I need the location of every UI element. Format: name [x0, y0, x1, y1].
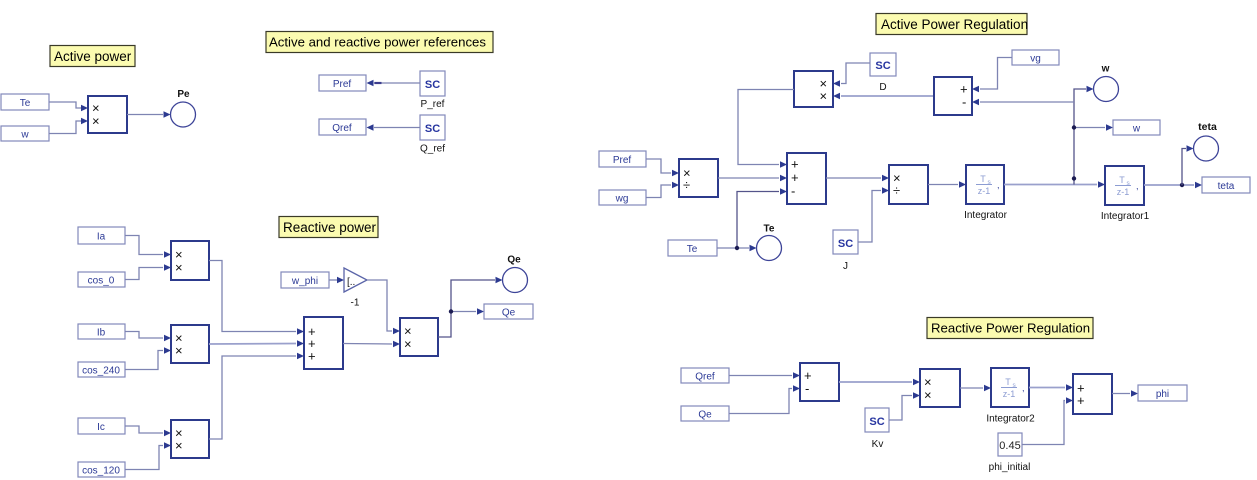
svg-text:w: w	[20, 130, 29, 141]
wire sum to product4	[343, 341, 400, 348]
svg-text:wg: wg	[615, 194, 629, 205]
wire w to product	[49, 118, 88, 134]
svg-text:-: -	[791, 184, 795, 199]
product block (Te*w)	[88, 96, 127, 133]
svg-text:cos_120: cos_120	[82, 466, 120, 477]
svg-text:J: J	[843, 261, 848, 272]
svg-text:Ib: Ib	[97, 328, 106, 339]
svg-text:SC: SC	[875, 60, 890, 72]
source block Te	[1, 94, 49, 110]
svg-text:z-1: z-1	[978, 186, 991, 196]
svg-text:×: ×	[175, 438, 183, 453]
source block w_phi	[281, 272, 329, 288]
SC block J	[833, 230, 858, 272]
wire SC J to divide2	[858, 187, 889, 242]
svg-text:T: T	[1005, 377, 1011, 387]
svg-text:Ic: Ic	[97, 422, 105, 433]
svg-text:-1: -1	[351, 298, 360, 309]
wire product2 to sum	[209, 340, 304, 347]
wire SC to Pref	[367, 80, 421, 87]
product block D (mirrored)	[794, 71, 833, 107]
svg-text:w: w	[1132, 124, 1141, 135]
svg-text:cos_0: cos_0	[88, 276, 115, 287]
source block cos_0	[78, 272, 125, 287]
junction dot teta	[1180, 183, 1184, 187]
svg-text:,: ,	[997, 180, 1000, 190]
svg-text:Te: Te	[764, 224, 775, 235]
wire Te to product	[49, 102, 88, 111]
svg-text:×: ×	[404, 337, 412, 352]
annotation label "Active Power Regulation"	[876, 14, 1028, 35]
wire sum to product Kv	[839, 379, 920, 386]
scope circle Te	[757, 224, 782, 261]
wire 0.45 to sum2	[1022, 397, 1073, 444]
wire Integrator1 to teta sink	[1144, 182, 1202, 189]
svg-text:P_ref: P_ref	[421, 99, 445, 110]
svg-text:Active Power Regulation: Active Power Regulation	[881, 17, 1028, 32]
svg-text:0.45: 0.45	[999, 440, 1020, 452]
annotation label "Reactive Power Regulation"	[927, 318, 1093, 339]
svg-text:Pref: Pref	[333, 79, 352, 90]
wire wg to divide	[646, 182, 679, 198]
svg-text:Qe: Qe	[502, 308, 516, 319]
svg-text:T: T	[980, 174, 986, 184]
svg-text:SC: SC	[838, 238, 853, 250]
source block Qe	[681, 406, 729, 421]
wire cos_120 to product3	[125, 442, 171, 469]
source block Ib	[78, 324, 125, 339]
annotation label "Reactive power"	[279, 217, 378, 238]
Integrator block	[964, 165, 1007, 221]
svg-text:Reactive Power Regulation: Reactive Power Regulation	[931, 321, 1090, 336]
sink block Qref	[319, 119, 366, 135]
svg-text:Pref: Pref	[613, 155, 632, 166]
source block Te	[668, 240, 717, 256]
svg-text:SC: SC	[425, 79, 440, 91]
source block Qref	[681, 368, 729, 383]
svg-text:teta: teta	[1218, 181, 1235, 192]
source block Ia	[78, 227, 125, 244]
junction dot	[449, 309, 453, 313]
svg-text:,: ,	[1136, 181, 1139, 191]
error sum block + - (mirrored)	[934, 77, 972, 115]
wire Ib to product2	[125, 332, 171, 342]
svg-text:Reactive power: Reactive power	[283, 220, 377, 235]
wire Integrator2 to sum2	[1029, 384, 1073, 391]
svg-text:Qe: Qe	[507, 255, 521, 266]
sink block Pref	[319, 75, 366, 91]
wire SC Kv to product	[889, 392, 920, 420]
sink block teta	[1202, 177, 1250, 193]
svg-text:,: ,	[1022, 383, 1025, 393]
SC block P_ref	[420, 71, 445, 110]
svg-text:phi_initial: phi_initial	[989, 462, 1031, 473]
sum block + -	[800, 363, 839, 401]
svg-text:Qref: Qref	[695, 372, 715, 383]
wire Qref to sum	[729, 372, 800, 379]
wire sum to divide2	[826, 175, 889, 182]
scope circle teta	[1194, 121, 1219, 161]
svg-text:+: +	[308, 349, 316, 364]
wire cos_0 to product1	[125, 264, 171, 279]
wire product to Integrator2	[960, 385, 991, 392]
svg-text:÷: ÷	[893, 183, 900, 198]
wire divide to sum	[718, 175, 787, 182]
junction dot main line	[1072, 176, 1076, 180]
wire Te to scope and sum	[717, 188, 787, 251]
svg-text:phi: phi	[1156, 389, 1169, 400]
svg-text:SC: SC	[869, 416, 884, 428]
annotation label "Active and reactive power references"	[266, 32, 493, 53]
product block Ia*cos_0	[171, 241, 209, 280]
svg-text:-: -	[805, 381, 809, 396]
junction dot Te	[735, 246, 739, 250]
svg-text:w_phi: w_phi	[291, 276, 318, 287]
svg-text:Active power: Active power	[54, 49, 132, 64]
svg-text:Active and reactive power refe: Active and reactive power references	[269, 35, 486, 50]
product block Ib*cos_240	[171, 325, 209, 363]
svg-text:w: w	[1101, 64, 1110, 75]
wire product3 to sum	[209, 353, 304, 439]
wire error sum to product D	[833, 93, 934, 100]
wire divide2 to Integrator	[928, 181, 966, 188]
scope circle w	[1094, 64, 1119, 102]
svg-text:z-1: z-1	[1117, 187, 1130, 197]
svg-text:+: +	[1077, 393, 1085, 408]
svg-text:z-1: z-1	[1003, 389, 1016, 399]
feedback vertical branch	[1072, 86, 1094, 185]
wire Qe to sum	[729, 385, 800, 413]
product block Kv	[920, 369, 960, 407]
svg-text:Integrator1: Integrator1	[1101, 211, 1150, 222]
svg-text:×: ×	[175, 343, 183, 358]
wire cos_240 to product2	[125, 347, 171, 369]
wire product to Pe scope	[127, 111, 171, 118]
wire product4 to Qe scope and Qe sink	[438, 277, 503, 337]
source block Ic	[78, 418, 125, 434]
wire branch to teta scope	[1182, 145, 1194, 185]
svg-text:teta: teta	[1198, 121, 1217, 133]
scope circle Qe	[503, 255, 528, 293]
SC block Q_ref	[420, 115, 445, 155]
svg-text:Integrator: Integrator	[964, 210, 1007, 221]
wire gain to product4	[367, 280, 400, 334]
source block cos_240	[78, 362, 125, 377]
source block wg	[599, 190, 646, 205]
divide block /J	[889, 165, 928, 204]
wire Ia to product1	[125, 236, 171, 258]
svg-text:Pe: Pe	[177, 89, 190, 100]
sink block w	[1113, 120, 1160, 135]
svg-text:Te: Te	[20, 98, 31, 109]
source block cos_120	[78, 462, 125, 477]
constant block 0.45	[989, 433, 1031, 473]
wire SC D to product D (mirrored input)	[833, 63, 870, 87]
svg-text:D: D	[879, 82, 886, 93]
svg-text:-: -	[962, 95, 966, 110]
wire Ic to product3	[125, 426, 171, 436]
junction dot w sink	[1072, 125, 1076, 129]
wire SC to Qref	[367, 124, 421, 131]
svg-text:[..: [..	[347, 277, 355, 288]
sink block Qe	[484, 304, 533, 319]
svg-text:cos_240: cos_240	[82, 366, 120, 377]
wire product1 to sum	[209, 261, 304, 335]
wire branch to error sum minus	[972, 99, 1074, 106]
product block Qe	[400, 318, 438, 356]
SC block D	[870, 53, 896, 93]
svg-text:×: ×	[924, 388, 932, 403]
annotation label "Active power"	[50, 46, 135, 67]
wire branch to w sink	[1072, 124, 1113, 131]
sum block (three-phase add)	[304, 317, 343, 369]
svg-text:vg: vg	[1030, 54, 1041, 65]
Integrator1 block	[1101, 166, 1150, 222]
svg-text:×: ×	[820, 89, 828, 104]
svg-text:Kv: Kv	[872, 439, 884, 450]
svg-text:Ia: Ia	[97, 232, 106, 243]
sum block + +	[1073, 374, 1112, 414]
wire Integrator to Integrator1	[1004, 181, 1105, 188]
gain triangle -1	[344, 268, 367, 309]
wire Pref to divide	[646, 159, 679, 176]
svg-text:Qe: Qe	[698, 410, 712, 421]
wire product D down to main sum	[738, 90, 794, 168]
SC block Kv	[865, 408, 889, 450]
Integrator2 block	[986, 368, 1035, 425]
wire sum2 to phi	[1112, 390, 1138, 397]
source block w	[1, 126, 49, 141]
svg-text:SC: SC	[425, 123, 440, 135]
svg-text:×: ×	[175, 260, 183, 275]
wire w_phi to gain	[329, 277, 344, 284]
divide block Pref/wg	[679, 159, 718, 197]
source block Pref	[599, 151, 646, 167]
svg-text:×: ×	[92, 114, 100, 129]
product block Ic*cos_120	[171, 420, 209, 458]
svg-text:Integrator2: Integrator2	[986, 414, 1035, 425]
svg-text:Qref: Qref	[332, 123, 352, 134]
main sum block + + -	[787, 153, 826, 204]
source block vg	[1012, 50, 1059, 65]
sink block phi	[1138, 385, 1187, 401]
svg-text:T: T	[1119, 175, 1125, 185]
svg-text:Te: Te	[687, 244, 698, 255]
svg-text:÷: ÷	[683, 178, 690, 193]
svg-text:Q_ref: Q_ref	[420, 144, 445, 155]
wire vg to error sum	[972, 58, 1012, 93]
scope circle Pe	[171, 89, 196, 127]
